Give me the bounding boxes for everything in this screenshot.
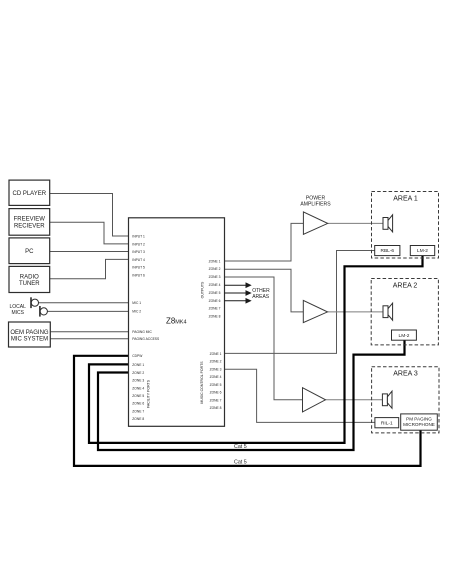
svg-text:FACILITY PORTS: FACILITY PORTS bbox=[147, 379, 151, 408]
svg-text:ZONE 6: ZONE 6 bbox=[209, 299, 221, 303]
svg-text:AREA 1: AREA 1 bbox=[393, 195, 418, 202]
svg-text:MIC 1: MIC 1 bbox=[132, 301, 141, 305]
svg-text:RBL-6: RBL-6 bbox=[380, 248, 394, 254]
svg-text:INPUT 4: INPUT 4 bbox=[132, 258, 145, 262]
svg-text:ZONE 6: ZONE 6 bbox=[210, 391, 222, 395]
svg-text:LM-2: LM-2 bbox=[417, 248, 428, 254]
svg-text:INPUT 3: INPUT 3 bbox=[132, 250, 145, 254]
svg-text:MICROPHONE: MICROPHONE bbox=[403, 422, 435, 427]
svg-text:LM-2: LM-2 bbox=[399, 333, 410, 339]
svg-text:ZONE 7: ZONE 7 bbox=[132, 409, 144, 413]
svg-text:RADIO: RADIO bbox=[20, 274, 39, 280]
svg-text:AMPLIFIERS: AMPLIFIERS bbox=[300, 202, 331, 208]
svg-text:PM PAGING: PM PAGING bbox=[406, 417, 432, 422]
svg-text:FREEVIEW: FREEVIEW bbox=[14, 217, 46, 223]
svg-text:ZONE 8: ZONE 8 bbox=[132, 417, 144, 421]
svg-text:CD PLAYER: CD PLAYER bbox=[13, 191, 47, 197]
svg-text:AREA 3: AREA 3 bbox=[393, 370, 418, 377]
svg-text:AREAS: AREAS bbox=[252, 294, 270, 300]
svg-text:INPUT 6: INPUT 6 bbox=[132, 273, 145, 277]
svg-text:MUSIC CONTROL PORTS: MUSIC CONTROL PORTS bbox=[200, 361, 204, 404]
svg-text:TUNER: TUNER bbox=[19, 281, 40, 287]
svg-text:ZONE 4: ZONE 4 bbox=[210, 375, 222, 379]
svg-text:ZONE 1: ZONE 1 bbox=[210, 352, 222, 356]
svg-text:INPUT 2: INPUT 2 bbox=[132, 242, 145, 246]
svg-text:ZONE 3: ZONE 3 bbox=[210, 367, 222, 371]
svg-text:MIC 2: MIC 2 bbox=[132, 310, 141, 314]
svg-text:CDPW: CDPW bbox=[132, 354, 143, 358]
svg-text:ZONE 2: ZONE 2 bbox=[210, 360, 222, 364]
svg-text:ZONE 3: ZONE 3 bbox=[132, 379, 144, 383]
svg-text:ZONE 6: ZONE 6 bbox=[132, 402, 144, 406]
svg-text:INPUT 1: INPUT 1 bbox=[132, 234, 145, 238]
svg-text:ZONE 1: ZONE 1 bbox=[209, 259, 221, 263]
svg-text:INPUT 5: INPUT 5 bbox=[132, 266, 145, 270]
svg-text:ZONE 4: ZONE 4 bbox=[132, 386, 144, 390]
svg-text:ZONE 4: ZONE 4 bbox=[209, 283, 221, 287]
svg-text:RIL-1: RIL-1 bbox=[381, 420, 393, 426]
svg-text:ZONE 7: ZONE 7 bbox=[209, 307, 221, 311]
svg-text:OEM PAGING: OEM PAGING bbox=[10, 330, 49, 336]
svg-text:ZONE 3: ZONE 3 bbox=[209, 275, 221, 279]
svg-text:ZONE 5: ZONE 5 bbox=[132, 394, 144, 398]
svg-text:ZONE 5: ZONE 5 bbox=[210, 383, 222, 387]
svg-text:RECIEVER: RECIEVER bbox=[14, 223, 45, 229]
svg-text:PAGING MIC: PAGING MIC bbox=[132, 330, 152, 334]
svg-text:PC: PC bbox=[25, 249, 34, 255]
svg-text:ZONE 5: ZONE 5 bbox=[209, 291, 221, 295]
svg-text:Cat 5: Cat 5 bbox=[234, 444, 247, 450]
svg-text:AREA 2: AREA 2 bbox=[393, 282, 418, 289]
svg-text:POWER: POWER bbox=[306, 195, 326, 201]
svg-text:ZONE 8: ZONE 8 bbox=[209, 315, 221, 319]
svg-text:ZONE 2: ZONE 2 bbox=[132, 371, 144, 375]
svg-text:OUTPUTS: OUTPUTS bbox=[200, 281, 204, 298]
svg-text:ZONE 1: ZONE 1 bbox=[132, 363, 144, 367]
svg-text:MICS: MICS bbox=[11, 310, 24, 316]
svg-text:PAGING ACCESS: PAGING ACCESS bbox=[132, 337, 160, 341]
svg-text:MIC SYSTEM: MIC SYSTEM bbox=[11, 337, 48, 343]
svg-text:Cat 5: Cat 5 bbox=[234, 460, 247, 466]
svg-text:ZONE 7: ZONE 7 bbox=[210, 398, 222, 402]
svg-text:OTHER: OTHER bbox=[252, 288, 270, 294]
svg-text:ZONE 8: ZONE 8 bbox=[210, 406, 222, 410]
svg-text:ZONE 2: ZONE 2 bbox=[209, 267, 221, 271]
